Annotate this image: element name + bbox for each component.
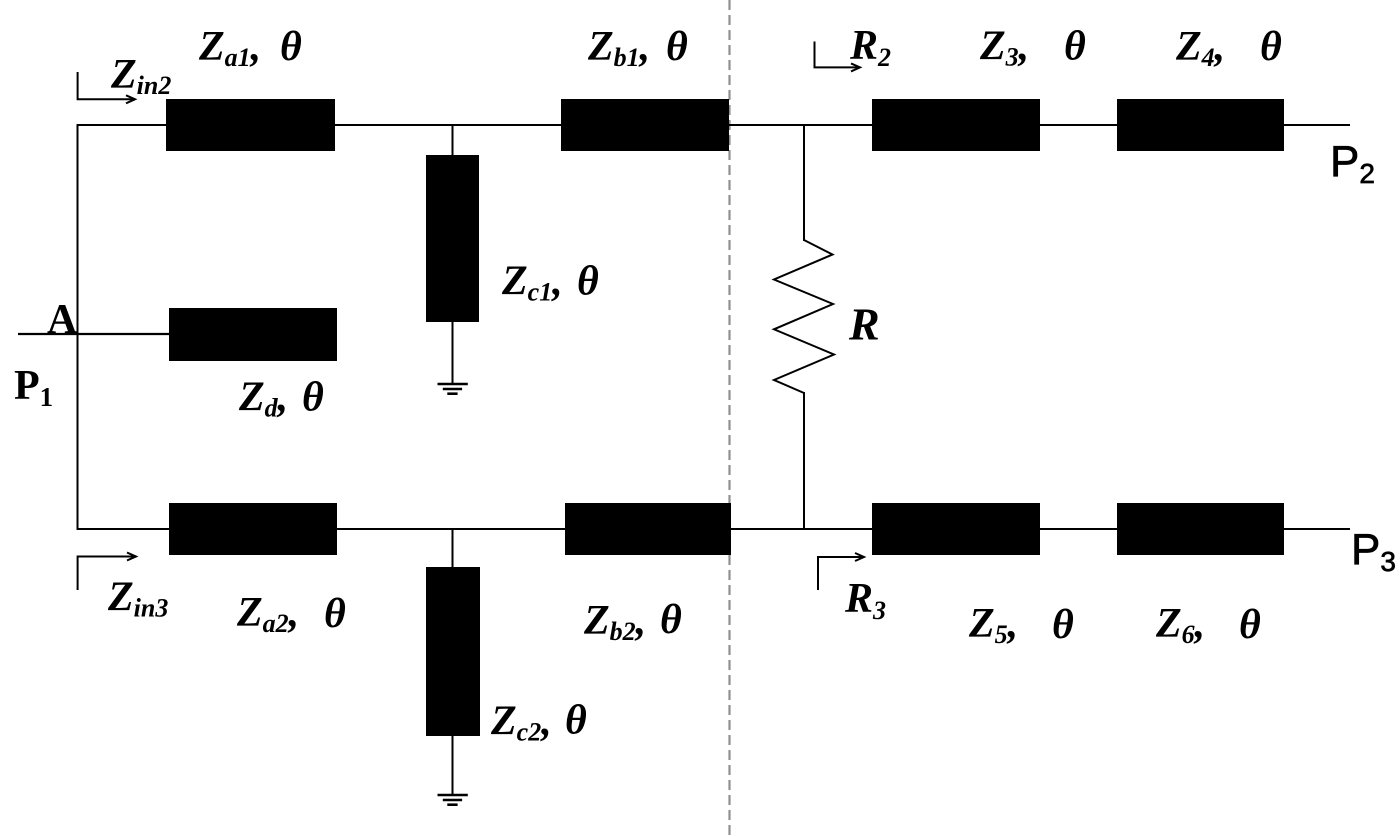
arrow R3	[818, 553, 864, 590]
transmission line Zb2	[565, 503, 731, 555]
ground below Zc1	[438, 384, 468, 394]
svg-text:Z5,: Z5,	[968, 601, 1018, 649]
wire Zc2 stub top	[452, 528, 454, 568]
svg-text:Z6,: Z6,	[1155, 601, 1205, 649]
wire bottom rail Z5 to Z6	[1039, 528, 1118, 530]
svg-text:θ: θ	[324, 591, 346, 637]
svg-text:θ: θ	[666, 24, 688, 70]
wire resistor top lead	[803, 124, 805, 241]
wire bottom rail Zb2 to Z5	[730, 528, 873, 530]
transmission line Z4	[1117, 99, 1284, 151]
wire top rail Zb1 to Z3	[729, 124, 873, 126]
wire top rail Z3 to Z4	[1040, 124, 1118, 126]
transmission line Za1	[166, 99, 335, 151]
ground below Zc2	[438, 795, 468, 805]
arrow Zin2	[78, 72, 135, 103]
symmetry plane dashed line	[728, 0, 730, 836]
wire Zc1 stub top	[452, 124, 454, 156]
shunt stub Zc1	[426, 155, 479, 322]
transmission line stub Zd	[169, 308, 337, 361]
wire node A horizontal	[18, 333, 170, 335]
transmission line Zb1	[561, 99, 729, 151]
wire P1 input vertical	[77, 124, 79, 530]
arrow Zin3	[78, 553, 136, 591]
shunt stub Zc2	[426, 567, 480, 736]
transmission line Za2	[169, 503, 337, 555]
wire bottom rail Z6 to P3	[1283, 528, 1350, 530]
transmission line Z6	[1117, 503, 1284, 555]
svg-text:Z4,: Z4,	[1175, 24, 1225, 72]
svg-text:A: A	[47, 297, 78, 343]
svg-text:θ: θ	[565, 698, 587, 744]
wire top rail left segment	[77, 124, 168, 126]
wire Zc2 to ground	[452, 735, 454, 795]
wire Zc1 to ground	[452, 321, 454, 384]
wire resistor bottom lead	[803, 392, 805, 530]
transmission line Z3	[872, 99, 1040, 151]
transmission line Z5	[872, 503, 1040, 555]
svg-text:θ: θ	[1052, 602, 1074, 648]
svg-text:Zd,: Zd,	[238, 375, 288, 423]
wire bottom rail left segment	[77, 528, 171, 530]
arrow R2	[815, 42, 861, 72]
svg-text:θ: θ	[577, 259, 599, 305]
resistor R zigzag	[774, 240, 834, 393]
wire top rail Z4 to P2	[1283, 124, 1350, 126]
svg-text:θ: θ	[1064, 24, 1086, 70]
svg-text:Z3,: Z3,	[979, 24, 1029, 72]
wire bottom rail Za2 to Zb2	[336, 528, 566, 530]
svg-text:θ: θ	[1239, 602, 1261, 648]
svg-text:R: R	[848, 299, 880, 350]
svg-text:θ: θ	[660, 597, 682, 643]
svg-text:θ: θ	[280, 24, 302, 70]
wire top rail Za1 to Zb1	[334, 124, 562, 126]
svg-text:θ: θ	[1260, 24, 1282, 70]
svg-text:θ: θ	[302, 375, 324, 421]
